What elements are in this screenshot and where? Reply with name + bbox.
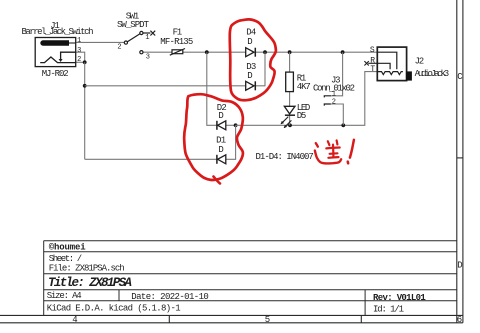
wire J1 pin3 stub	[76, 52, 85, 62]
wire D3 cathode up to node	[255, 52, 265, 86]
svg-text:D5: D5	[297, 111, 307, 121]
red annotation character vertical	[332, 145, 335, 158]
wire F1 to D4	[183, 51, 246, 53]
sheet border right inner line	[456, 0, 458, 323]
diode D4	[246, 48, 256, 57]
zone tick bottom 4/5	[168, 315, 170, 322]
red annotation character stroke dot of radical	[316, 143, 318, 146]
svg-text:D: D	[218, 145, 223, 155]
red annotation character upper horizontal	[326, 146, 339, 149]
connector J3 Conn_01x02	[324, 96, 331, 106]
wire bottom rail to D1	[85, 158, 217, 160]
svg-text:SW_SPDT: SW_SPDT	[117, 20, 150, 30]
svg-text:AudioJack3: AudioJack3	[415, 69, 450, 79]
pin R stub with no-connect X	[364, 61, 377, 65]
red annotation character lower horizontal	[328, 156, 338, 159]
switch SW1 SW_SPDT	[124, 31, 155, 54]
svg-text:1: 1	[77, 37, 81, 45]
diode D1	[217, 155, 226, 164]
wire D1 anode up to node	[226, 125, 236, 159]
wire branch down from F1 node to D2 row	[207, 52, 217, 125]
svg-text:2: 2	[117, 43, 121, 51]
wire mid rail to J2 T	[236, 72, 378, 126]
svg-text:5: 5	[265, 315, 270, 325]
svg-text:Id: 1/1: Id: 1/1	[373, 305, 404, 315]
svg-text:Date: 2022-01-10: Date: 2022-01-10	[131, 292, 209, 302]
svg-text:D: D	[247, 71, 252, 81]
sheet border bottom inner line	[0, 314, 463, 316]
wire R1 to LED	[289, 92, 291, 107]
wire SW1.3 to F1	[143, 51, 172, 53]
sheet border bottom outer line	[0, 322, 463, 324]
svg-text:D1: D1	[216, 135, 226, 145]
node D4 cathode junction	[263, 50, 267, 54]
wire LED to mid rail	[289, 115, 291, 125]
wire D2 anode to mid rail node	[226, 124, 236, 126]
svg-text:F1: F1	[173, 28, 183, 38]
wire J3 pin2 branch	[330, 104, 343, 125]
svg-text:File: ZX81PSA.sch: File: ZX81PSA.sch	[49, 263, 125, 273]
svg-text:4K7: 4K7	[297, 82, 311, 92]
node R1 branch	[288, 50, 292, 54]
wire D4 cathode rail to J2	[255, 51, 377, 53]
svg-text:Size: A4: Size: A4	[47, 291, 82, 301]
node J1 pins 2-3 junction	[83, 60, 87, 64]
wire R1 branch down	[289, 52, 291, 72]
red annotation loop around D4 D3	[230, 19, 276, 100]
LED D5	[281, 106, 295, 128]
svg-text:2: 2	[77, 56, 81, 64]
svg-text:MJ-R02: MJ-R02	[42, 69, 69, 79]
svg-text:D: D	[457, 261, 462, 271]
red annotation exclamation dot	[346, 162, 349, 164]
svg-text:2: 2	[332, 98, 336, 106]
red annotation character middle horizontal	[330, 152, 338, 155]
svg-text:3: 3	[77, 47, 81, 55]
svg-text:1: 1	[332, 90, 336, 98]
title block outline	[44, 241, 457, 316]
red annotation exclamation stroke	[350, 140, 354, 158]
node LED branch	[288, 123, 292, 127]
sheet border right outer line	[462, 0, 464, 323]
svg-text:3: 3	[146, 53, 150, 61]
wire J1 pin2 stub	[76, 61, 85, 63]
svg-text:D1-D4: IN4007: D1-D4: IN4007	[256, 152, 314, 162]
wire left rail down	[84, 62, 86, 159]
svg-text:J2: J2	[415, 56, 425, 66]
red annotation character sweep	[315, 151, 341, 164]
red annotation character top right tick	[336, 140, 339, 144]
node left rail D3 branch	[83, 84, 87, 88]
svg-text:6: 6	[457, 315, 462, 325]
svg-text:D4: D4	[246, 28, 256, 38]
svg-text:MF-R135: MF-R135	[160, 37, 193, 47]
svg-text:1: 1	[145, 34, 149, 42]
node F1 output junction	[205, 50, 209, 54]
red annotation loop around D2 D1	[184, 94, 243, 180]
wire top rail J1.1 to SW1.2	[76, 41, 125, 43]
wire J3 pin1 branch	[330, 52, 343, 96]
zone tick right C/D	[457, 157, 463, 159]
node J3 branch	[341, 50, 345, 54]
red annotation loop2 overlap tail	[214, 177, 221, 184]
svg-text:C: C	[457, 72, 463, 82]
svg-text:4: 4	[72, 315, 77, 325]
svg-text:D: D	[218, 111, 223, 121]
svg-text:KiCad E.D.A. kicad (5.1.8)-1: KiCad E.D.A. kicad (5.1.8)-1	[47, 303, 181, 313]
red annotation character top left tick	[328, 141, 330, 145]
diode D3	[246, 81, 256, 90]
connector J1 Barrel_Jack_Switch MJ-R02	[35, 38, 75, 67]
svg-text:Rev: V01L01: Rev: V01L01	[373, 293, 426, 303]
svg-text:©houmei: ©houmei	[49, 242, 87, 252]
zone tick bottom 5/6	[360, 315, 362, 322]
node D2 D1 junction	[234, 123, 238, 127]
svg-text:D: D	[247, 37, 252, 47]
wire D3 row	[85, 85, 246, 87]
svg-text:Barrel_Jack_Switch: Barrel_Jack_Switch	[22, 27, 94, 37]
fuse F1 MF-R135	[170, 49, 185, 56]
svg-text:T: T	[370, 65, 375, 74]
diode D2	[217, 121, 226, 130]
svg-text:Title: ZX81PSA: Title: ZX81PSA	[48, 276, 132, 290]
resistor R1 4K7	[286, 72, 294, 92]
connector J2 AudioJack3	[377, 47, 412, 81]
node J3 pin2 branch	[341, 123, 345, 127]
svg-text:S: S	[370, 46, 375, 55]
